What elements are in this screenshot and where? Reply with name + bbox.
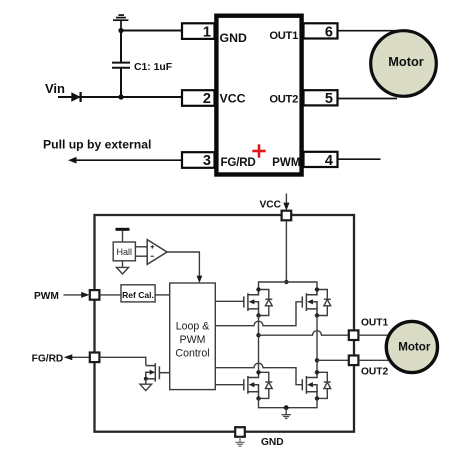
svg-text:OUT1: OUT1 xyxy=(269,30,298,42)
transistor Q2 (high side right) xyxy=(302,290,317,316)
transistor Q1 (high side left) xyxy=(244,290,259,316)
svg-text:GND: GND xyxy=(261,437,284,448)
capacitor C1 xyxy=(112,63,130,68)
svg-text:Motor: Motor xyxy=(398,341,431,354)
transistor Q4 (low side right) xyxy=(302,372,317,398)
node Q2 drain xyxy=(315,287,319,291)
svg-text:OUT2: OUT2 xyxy=(269,93,298,105)
svg-text:FG/RD: FG/RD xyxy=(221,156,256,169)
wire gate Q1 xyxy=(215,300,244,302)
svg-text:OUT1: OUT1 xyxy=(361,318,389,329)
ground (top-left earth symbol) xyxy=(113,15,128,30)
svg-text:3: 3 xyxy=(203,153,211,169)
svg-text:PWM: PWM xyxy=(34,291,59,302)
wire pin 4 stub xyxy=(338,158,381,160)
transistor Q5 (open-drain FG/RD) xyxy=(146,363,170,381)
svg-text:Vin: Vin xyxy=(45,81,65,96)
ground (GND pin earth) xyxy=(235,437,244,446)
svg-text:Loop &: Loop & xyxy=(176,321,210,333)
svg-text:VCC: VCC xyxy=(220,92,246,106)
wire FG/RD to transistor Q5 xyxy=(99,357,145,365)
wire OUT1 with hop over right leg xyxy=(259,331,349,336)
op-amp A1 xyxy=(147,240,167,265)
block diagram boundary box xyxy=(95,215,355,432)
pin 1 box xyxy=(182,23,215,39)
svg-text:Pull up by external: Pull up by external xyxy=(43,137,151,151)
wire ground junction to pin 1 xyxy=(121,30,183,32)
node junction C1 top xyxy=(118,28,123,33)
ground below Q5 xyxy=(140,379,152,391)
svg-text:4: 4 xyxy=(325,153,333,169)
wire pin 6 to motor xyxy=(338,30,404,32)
wire OUT2 to motor xyxy=(358,359,390,361)
svg-text:OUT2: OUT2 xyxy=(361,366,389,377)
node OUT2 junction xyxy=(315,358,319,362)
svg-text:PWM: PWM xyxy=(272,156,300,169)
svg-text:2: 2 xyxy=(203,91,211,107)
node junction Vin/C1 xyxy=(118,94,123,99)
svg-text:C1: 1uF: C1: 1uF xyxy=(134,62,172,73)
svg-text:GND: GND xyxy=(220,31,247,45)
svg-text:Control: Control xyxy=(175,347,209,359)
svg-text:5: 5 xyxy=(325,91,333,107)
ground below Hall xyxy=(116,261,128,274)
wire OUT1 to motor xyxy=(358,334,389,336)
wire gate Q3 xyxy=(215,384,244,386)
node GND terminal xyxy=(235,427,245,437)
node ground rail junction xyxy=(284,405,289,410)
svg-text:Hall: Hall xyxy=(117,247,133,257)
svg-text:Ref Cal.: Ref Cal. xyxy=(122,290,154,300)
svg-text:Motor: Motor xyxy=(388,54,424,69)
wire Q2 source to OUT2 node xyxy=(316,316,318,373)
Loop & PWM Control block xyxy=(170,283,216,390)
wire gate Q2 with hop xyxy=(215,302,302,326)
red plus mark xyxy=(252,144,265,157)
pin 5 box xyxy=(304,90,338,105)
svg-text:FG/RD: FG/RD xyxy=(32,353,64,364)
node Q1 drain xyxy=(256,287,260,291)
node Q4 source xyxy=(315,396,319,400)
pin 2 box xyxy=(182,90,215,106)
diode D-Q2 body xyxy=(317,290,331,316)
pin 6 box xyxy=(304,23,338,38)
pin 3 box xyxy=(182,152,215,168)
node Q3 drain xyxy=(256,370,260,374)
node OUT2 terminal xyxy=(349,356,359,366)
wire FG/RD output arrow xyxy=(64,354,90,360)
svg-text:VCC: VCC xyxy=(260,199,282,210)
svg-text:1: 1 xyxy=(203,24,211,40)
ground (bridge earth) xyxy=(282,408,291,419)
Hall sensor block xyxy=(113,242,135,261)
node VCC rail junction xyxy=(284,280,288,284)
node Q3 source xyxy=(256,396,260,400)
wire amp output to control block xyxy=(167,252,202,283)
wire junction down to C1 xyxy=(120,31,122,63)
wire VCC top rail xyxy=(259,282,318,290)
diode D-Q3 body xyxy=(259,372,273,398)
node Q4 drain xyxy=(315,370,319,374)
wire Q1 source to OUT1 node xyxy=(258,316,260,373)
node Q1 source xyxy=(256,313,260,317)
node OUT1 terminal xyxy=(349,330,359,340)
node VCC terminal xyxy=(282,211,292,221)
wire Vin to pin 2 xyxy=(58,96,183,98)
wire C1 bottom to Vin line xyxy=(120,69,122,98)
wire PWM input arrow xyxy=(64,292,90,298)
diode D-Q4 body xyxy=(317,372,331,398)
node Q5 source junction xyxy=(144,377,148,381)
wire OUT2 xyxy=(317,359,349,361)
wire gate Q4 with hop xyxy=(215,363,302,385)
node OUT1 junction xyxy=(256,333,260,337)
svg-text:PWM: PWM xyxy=(180,334,206,346)
wire VCC down to bridge xyxy=(285,220,287,282)
wire bottom rail to ground xyxy=(259,398,318,407)
node Q2 source xyxy=(315,313,319,317)
diode D1 on Vin line xyxy=(71,92,80,102)
motor M2 xyxy=(386,321,437,372)
wire PWM to Ref Cal xyxy=(99,294,121,296)
wire VCC stub arrow xyxy=(283,194,289,211)
op-amp U1 IC body xyxy=(216,16,301,175)
wire pin 5 to motor xyxy=(338,98,398,100)
pin 4 box xyxy=(304,152,338,167)
Ref Cal block xyxy=(121,285,155,302)
wire pin 3 pull-up arrow xyxy=(68,157,183,164)
wire Hall to amp inputs xyxy=(135,247,147,256)
svg-text:6: 6 xyxy=(325,24,333,40)
diode D-Q1 body xyxy=(259,290,273,316)
transistor Q3 (low side left) xyxy=(244,372,259,398)
node PWM terminal xyxy=(90,290,100,300)
motor M1 xyxy=(371,31,437,97)
power tick above Hall xyxy=(116,229,130,242)
node FG/RD terminal xyxy=(90,353,100,363)
wire Ref Cal to control block xyxy=(155,294,170,296)
